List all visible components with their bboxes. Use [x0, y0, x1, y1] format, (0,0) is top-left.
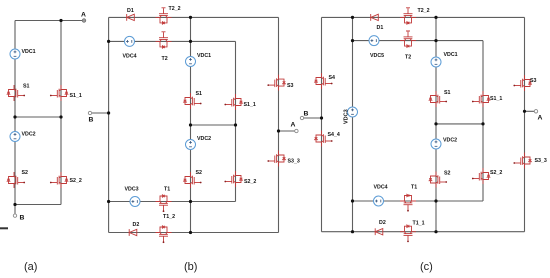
svg-text:S1_1: S1_1 [490, 96, 502, 102]
svg-text:T1_1: T1_1 [413, 221, 425, 227]
svg-text:S1: S1 [23, 84, 30, 90]
svg-text:T2: T2 [405, 55, 411, 61]
svg-text:D1: D1 [377, 25, 384, 31]
svg-text:T1_2: T1_2 [163, 214, 175, 220]
svg-text:VDC2: VDC2 [22, 132, 36, 138]
svg-text:T2: T2 [162, 56, 168, 62]
svg-text:S4: S4 [329, 75, 336, 81]
svg-text:A: A [538, 115, 543, 122]
svg-text:B: B [304, 111, 309, 118]
svg-text:T2_2: T2_2 [169, 6, 181, 12]
svg-text:S4_4: S4_4 [328, 132, 340, 138]
svg-text:VDC4: VDC4 [374, 185, 388, 191]
svg-text:(a): (a) [24, 261, 37, 273]
svg-text:S1: S1 [444, 90, 451, 96]
svg-text:S2: S2 [22, 170, 29, 176]
svg-text:(b): (b) [184, 261, 197, 273]
svg-text:S3: S3 [530, 78, 537, 84]
svg-text:S2_2: S2_2 [490, 170, 502, 176]
svg-text:VDC3: VDC3 [344, 109, 350, 124]
svg-text:A: A [291, 122, 296, 129]
svg-text:B: B [89, 117, 94, 124]
svg-text:S1: S1 [196, 91, 203, 97]
svg-text:S3: S3 [287, 83, 294, 89]
svg-text:A: A [81, 12, 86, 19]
svg-text:VDC1: VDC1 [197, 53, 211, 59]
svg-text:VDC4: VDC4 [123, 54, 137, 60]
svg-text:VDC2: VDC2 [197, 136, 211, 142]
svg-text:VDC1: VDC1 [22, 49, 36, 55]
svg-text:S2_2: S2_2 [244, 179, 256, 185]
svg-text:S2: S2 [196, 170, 203, 176]
svg-text:D2: D2 [133, 222, 140, 228]
svg-text:S1_1: S1_1 [70, 93, 82, 99]
svg-text:S3_3: S3_3 [288, 159, 300, 165]
svg-text:B: B [20, 215, 25, 222]
svg-text:S2_2: S2_2 [70, 178, 82, 184]
svg-text:S2: S2 [444, 171, 451, 177]
svg-text:VDC5: VDC5 [370, 53, 384, 59]
svg-text:S3_3: S3_3 [535, 158, 547, 164]
svg-text:D1: D1 [127, 8, 134, 14]
svg-text:D2: D2 [379, 220, 386, 226]
svg-text:VDC2: VDC2 [443, 138, 457, 144]
svg-text:(c): (c) [420, 261, 433, 273]
svg-text:T1: T1 [164, 187, 170, 193]
svg-text:S1_1: S1_1 [244, 102, 256, 108]
svg-text:VDC3: VDC3 [125, 187, 139, 193]
svg-text:VDC1: VDC1 [444, 52, 458, 58]
svg-text:T1: T1 [411, 185, 417, 191]
svg-text:T2_2: T2_2 [418, 8, 430, 14]
